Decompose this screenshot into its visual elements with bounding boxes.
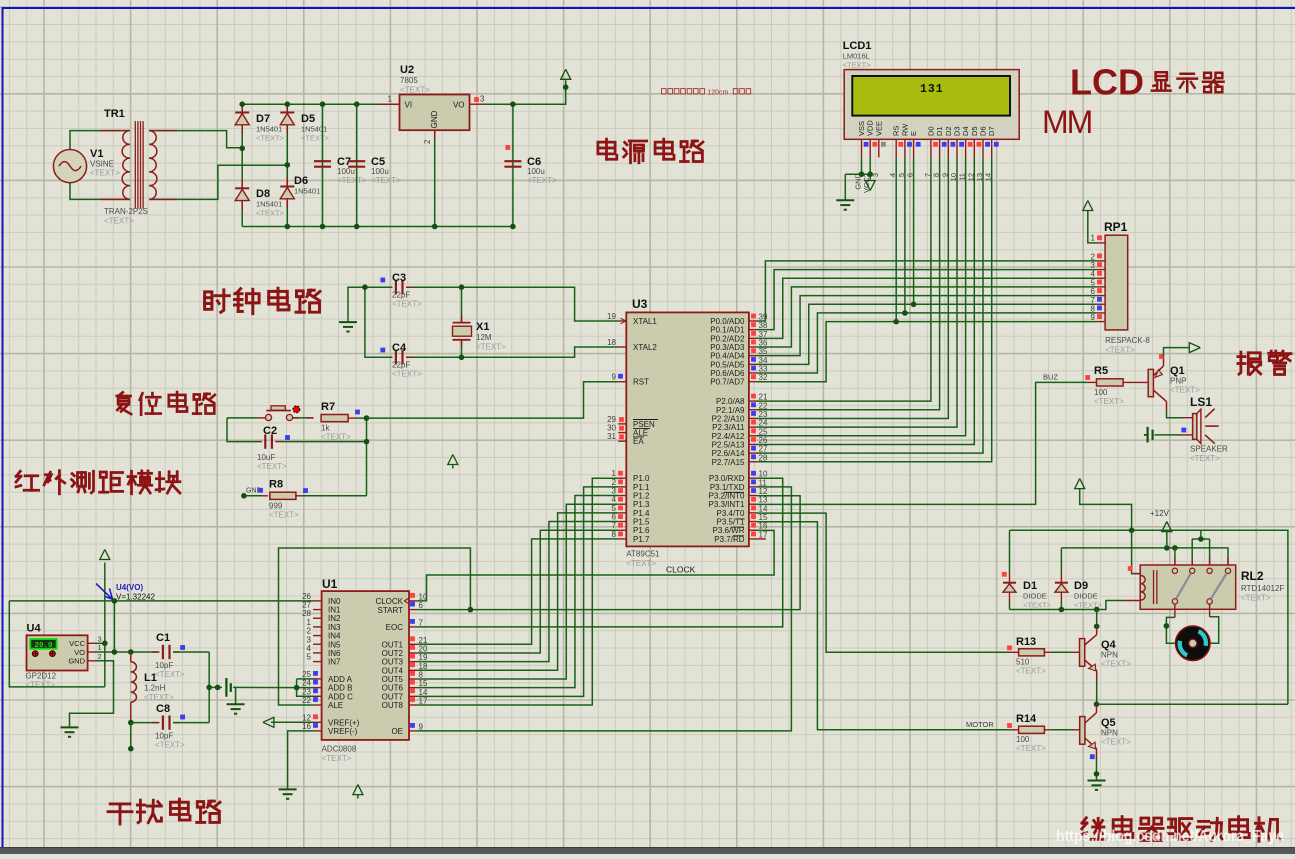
svg-text:VSINE: VSINE [90,160,114,169]
svg-text:<TEXT>: <TEXT> [155,741,185,750]
svg-text:<TEXT>: <TEXT> [269,511,299,520]
svg-text:100: 100 [1016,735,1030,744]
wire supply arrow to relay coil rail [1080,489,1132,531]
capacitor C1 [163,645,170,659]
svg-text:<TEXT>: <TEXT> [1105,346,1135,355]
diode D7 [235,113,249,125]
power terminal +V output [561,69,571,79]
wire Q1 emitter to power arrow [1164,348,1190,357]
wire diode bottom rail [1010,601,1125,610]
svg-text:16: 16 [759,522,768,531]
svg-text:18: 18 [607,338,616,347]
power terminal VREF+ [263,717,274,727]
svg-text:<TEXT>: <TEXT> [25,681,55,690]
svg-text:U1: U1 [322,577,338,591]
wire P1.1 to OUT7 [417,487,618,696]
svg-text:27: 27 [759,445,768,454]
svg-text:D9: D9 [1074,580,1088,592]
LCD pin stubs [862,139,992,157]
svg-text:D1: D1 [935,126,944,136]
junction C2 RST [364,439,370,445]
svg-text:8: 8 [419,670,424,679]
svg-text:RS: RS [892,126,901,136]
svg-text:39: 39 [759,313,768,322]
svg-text:3: 3 [98,635,102,644]
svg-text:7: 7 [1091,296,1096,305]
U4 pin stubs and numbers [88,642,96,644]
transistor Q1 PNP [1148,369,1153,396]
svg-text:TR1: TR1 [104,108,125,120]
relay switch blades [1176,573,1191,599]
U4 adjust knobs [32,651,38,657]
svg-text:9: 9 [419,722,424,731]
svg-text:P0.2/AD2: P0.2/AD2 [710,334,745,343]
svg-text:P2.3/A11: P2.3/A11 [712,423,745,432]
junction ADD B [294,685,300,691]
svg-text:23: 23 [302,687,311,696]
svg-text:2: 2 [423,139,432,144]
MCU U3 AT89C51 body [626,312,749,546]
svg-text:4: 4 [1091,270,1096,279]
svg-text:LCD: LCD [1070,62,1144,103]
U3 right pin stubs [749,321,766,539]
wire battery to ADD pins [233,686,297,688]
svg-text:P0.1/AD1: P0.1/AD1 [710,326,745,335]
svg-text:12M: 12M [476,333,492,342]
svg-text:R14: R14 [1016,713,1037,725]
junction node A [239,146,245,152]
svg-text:<TEXT>: <TEXT> [1241,594,1271,603]
junction Q5 emitter [1094,771,1100,777]
wire P0.2 to RP1 pin 4 [757,278,1097,338]
wire U1 EOC to U3 P3.0/RXD [417,478,782,627]
svg-text:38: 38 [759,321,768,330]
svg-text:120cm: 120cm [707,89,728,96]
wire C8 row [131,722,158,724]
svg-text:14: 14 [419,688,428,697]
svg-text:VSS: VSS [857,121,866,136]
svg-text:P3.0/RXD: P3.0/RXD [709,474,745,483]
svg-text:10uF: 10uF [257,453,275,462]
svg-text:2: 2 [98,652,102,661]
svg-text:131: 131 [920,83,944,96]
wire relay to motor right [1209,604,1211,617]
svg-text:P1.2: P1.2 [633,492,650,501]
svg-text:P3.1/TXD: P3.1/TXD [710,483,745,492]
svg-text:RST: RST [633,378,649,387]
svg-text:P2.2/A10: P2.2/A10 [712,414,745,423]
svg-text:C3: C3 [392,272,406,284]
source V1 VSINE [53,150,86,183]
ground LCD [836,200,854,209]
voltage probe U4(VO) [96,584,113,600]
ground battery [227,704,245,713]
U1 left pin stubs [313,601,322,731]
transformer TR1 [122,131,130,200]
terminal L1 bottom [128,746,134,752]
U4 display window [30,639,56,649]
svg-text:D5: D5 [301,113,315,125]
svg-text:9: 9 [1091,313,1096,322]
junction VO arrow [563,84,569,90]
wire LCD D0 to P2.0 [757,158,931,402]
junction RS row9 [893,319,899,325]
wire R7 to RST junction [348,417,356,419]
junction R7 RST [364,415,370,421]
U1 left pin names [328,597,360,736]
wire C1 row [131,651,158,653]
svg-text:P1.0: P1.0 [633,474,650,483]
wire battery to speaker bottom pin [1155,434,1182,436]
marker R14 [1007,723,1012,728]
marker R8 right [303,488,308,493]
resistor R8 body [270,492,296,499]
wire P1.5 to OUT3 [417,522,618,662]
wire U4 VCC to power arrow [96,642,105,644]
wire U4 GND to ground [70,661,114,728]
wire R14 to Q5 base [1044,729,1052,731]
junction Q4 emitter Q5 collector [1094,701,1100,707]
wire P0.5 to RP1 pin 7 [757,304,1097,364]
junction VO riser [112,649,118,655]
svg-text:EOC: EOC [386,623,404,632]
svg-text:P1.5: P1.5 [633,518,650,527]
wire P3.3 to BUZ [757,382,1088,504]
svg-text:P2.0/A8: P2.0/A8 [716,397,745,406]
svg-text:LCD1: LCD1 [843,40,872,52]
wire P0.7 to RP1 pin 9 [757,322,1097,382]
diode D1 [1003,583,1016,593]
svg-text:C4: C4 [392,342,407,354]
svg-text:1: 1 [388,95,393,104]
wire C3 XTAL1 rail [365,286,393,288]
svg-text:23: 23 [759,410,768,419]
svg-text:10: 10 [759,470,768,479]
reset button toggle dot [293,406,300,413]
svg-text:24: 24 [759,419,768,428]
svg-text:<TEXT>: <TEXT> [1101,660,1131,669]
svg-text:<TEXT>: <TEXT> [155,670,185,679]
capacitor C6 [504,161,521,167]
wire P1.6 to OUT2 [417,530,618,653]
svg-text:15: 15 [759,513,768,522]
wire Q5 emitter to ground [1096,758,1098,781]
svg-text:<TEXT>: <TEXT> [843,61,872,70]
power terminal +12V [1162,522,1172,532]
junction bottom rail C6 [510,224,516,230]
relay RL2 body [1140,565,1236,609]
XTAL1 clock input mark [621,318,627,323]
svg-text:P3.3/INT1: P3.3/INT1 [708,500,745,509]
wire P1.3 to OUT5 [417,504,618,679]
U3 right pin numbers and markers [751,313,768,540]
wire Q4 collector [1096,610,1098,629]
svg-text:6: 6 [1091,287,1096,296]
svg-text:C8: C8 [156,703,170,715]
svg-text:P3.6/WR: P3.6/WR [712,526,744,535]
svg-text:16: 16 [302,722,311,731]
U1 right pin names [375,597,403,736]
diode D6 [280,187,294,199]
wire reset button left [227,417,258,419]
battery cell BT [225,678,227,697]
svg-text:<TEXT>: <TEXT> [322,754,352,763]
reset button contacts [265,414,271,420]
wire U1 CLOCK to U3 P3.6/WR [417,530,774,601]
svg-text:D7: D7 [256,113,270,125]
svg-text:X1: X1 [476,321,489,333]
svg-text:<TEXT>: <TEXT> [104,217,134,226]
svg-text:IN0: IN0 [328,597,341,606]
svg-text:OUT3: OUT3 [382,658,404,667]
svg-text:19: 19 [607,312,616,321]
svg-text:<TEXT>: <TEXT> [1016,744,1046,753]
svg-text:1k: 1k [321,424,330,433]
label 复位电路 [117,392,131,414]
svg-text:14: 14 [759,504,768,513]
wire C4 XTAL2 rail [365,287,393,357]
svg-text:<TEXT>: <TEXT> [1094,397,1124,406]
svg-text:https://blog.csdn.net/Aurora_F: https://blog.csdn.net/Aurora_Faye [1056,828,1284,845]
svg-text:4: 4 [307,644,312,653]
svg-text:33: 33 [759,365,768,374]
svg-text:D6: D6 [979,126,988,136]
wire LCD D5 to P2.5 [757,158,974,445]
wire LCD VDD power [869,158,871,180]
marker coil top [1128,566,1133,571]
svg-text:27: 27 [302,601,311,610]
label 报警 [1238,352,1261,374]
svg-text:P0.5/AD5: P0.5/AD5 [710,360,745,369]
wire P1.2 to OUT6 [417,496,618,688]
svg-text:4: 4 [612,495,617,504]
svg-text:2: 2 [307,627,312,636]
junction C3 left [362,284,368,290]
pin 2 GND stub U2 [434,130,436,226]
wire contact rail y548 [1061,548,1228,565]
svg-text:<TEXT>: <TEXT> [626,559,656,568]
wire coil riser [1132,530,1141,573]
wire P0.1 to RP1 pin 3 [757,270,1097,330]
junction Q4 collector rail [1094,607,1100,613]
svg-text:P0.0/AD0: P0.0/AD0 [710,317,745,326]
svg-text:9: 9 [612,373,617,382]
svg-text:VREF(-): VREF(-) [328,727,358,736]
svg-text:IN6: IN6 [328,649,341,658]
RP1 pin stubs [1097,243,1105,322]
wire P1.4 to OUT4 [417,513,618,670]
svg-text:PSEN: PSEN [633,420,655,429]
svg-text:P0.7/AD7: P0.7/AD7 [710,378,745,387]
svg-text:1N5401: 1N5401 [256,200,282,209]
svg-text:U2: U2 [400,64,414,76]
svg-text:28: 28 [302,609,311,618]
svg-text:<TEXT>: <TEXT> [392,370,422,379]
svg-text:IN2: IN2 [328,614,341,623]
svg-text:26: 26 [759,436,768,445]
svg-text:<TEXT>: <TEXT> [301,134,330,143]
svg-text:GND: GND [68,657,85,666]
wire P0.6 to RP1 pin 8 [757,313,1097,373]
label 继电器驱动电机 [1082,818,1105,840]
svg-text:V1: V1 [90,148,103,160]
svg-text:<TEXT>: <TEXT> [1016,667,1046,676]
label 干扰电路 [108,804,132,824]
speaker LS1 [1193,414,1197,440]
svg-text:10pF: 10pF [155,661,173,670]
svg-text:1N5401: 1N5401 [301,125,327,134]
wire R8 to RST vertical [296,495,303,497]
junction tank mid [206,685,212,691]
svg-text:<TEXT>: <TEXT> [476,343,506,352]
wire LCD D3 to P2.3 [757,158,957,428]
wire C5 column [356,104,358,226]
U3 left pin markers [618,374,624,536]
wire +V rail y530 [1010,530,1288,704]
transistor Q4 NPN [1080,639,1085,667]
junction Q4 collector node [1094,624,1100,630]
motor icon [1176,626,1210,660]
LCD1 screen [852,76,1010,116]
svg-text:<TEXT>: <TEXT> [527,176,557,185]
svg-text:RTD14012F: RTD14012F [1241,584,1285,593]
resistor R14 body [1019,726,1045,733]
svg-text:TRAN-2P2S: TRAN-2P2S [104,207,148,216]
svg-text:10pF: 10pF [155,732,173,741]
wire P1.7 to OUT1 [417,539,618,644]
capacitor C7 [314,161,331,167]
svg-text:D1: D1 [1023,580,1037,592]
svg-text:RL2: RL2 [1241,569,1264,583]
wire node to right riser [1097,703,1288,705]
svg-text:35: 35 [759,347,768,356]
svg-text:IN3: IN3 [328,623,341,632]
wire VO rail to C6 and power arrow [482,80,566,104]
marker Q5 emitter [1090,754,1095,759]
U1 right pin stubs [409,601,417,731]
svg-text:NPN: NPN [1101,651,1118,660]
junction top rail D7 [239,101,245,107]
svg-text:D7: D7 [987,126,996,136]
svg-text:25: 25 [759,427,768,436]
svg-text:CLOCK: CLOCK [666,565,696,575]
marker C8 [180,715,185,720]
junction C8 L1 [128,720,134,726]
svg-text:100u: 100u [371,167,389,176]
junction D9 bottom [1059,607,1065,613]
junction ALE-START [468,607,474,613]
svg-text:OUT5: OUT5 [382,675,404,684]
wire left loop down [9,601,105,687]
junction RW row8 [902,310,908,316]
label 红外测距模块 [16,471,39,490]
svg-text:3: 3 [307,635,312,644]
svg-text:P0.4/AD4: P0.4/AD4 [710,352,745,361]
svg-text:20: 20 [419,644,428,653]
wire P3.4 to R13 [757,513,1010,652]
svg-text:100: 100 [1094,388,1108,397]
svg-text:EA: EA [633,437,644,446]
junction contact1 rail [1172,545,1178,551]
svg-text:P1.3: P1.3 [633,500,650,509]
junction C3 X1 [459,284,465,290]
capacitor C2 [265,434,272,448]
label 电源电路 [598,139,617,159]
wire TR1 secondary bottom to bridge node B [149,165,287,199]
svg-text:E: E [909,131,918,136]
svg-text:<TEXT>: <TEXT> [371,176,401,185]
svg-text:OE: OE [391,727,403,736]
wire D5 column [286,104,288,226]
svg-text:U4: U4 [27,623,42,635]
svg-text:36: 36 [759,339,768,348]
marker C3 [380,278,385,283]
svg-text:GP2D12: GP2D12 [25,672,56,681]
wire reset button to R7 [293,417,314,419]
svg-text:D8: D8 [256,188,270,200]
label 120cm note [662,89,667,94]
power terminal U4 VCC [100,550,110,560]
marker R5 left [1085,375,1090,380]
U3 left pin stubs [618,321,626,539]
RP1 pin numbers and markers [1091,234,1102,323]
svg-text:24: 24 [302,679,311,688]
svg-text:17: 17 [419,697,428,706]
svg-text:22: 22 [759,401,768,410]
diode D5 [280,113,294,125]
resistor R5 [1088,381,1097,383]
svg-text:R8: R8 [269,479,283,491]
svg-text:P3.4/T0: P3.4/T0 [716,509,745,518]
junction C4 X1 [459,355,465,361]
svg-text:NPN: NPN [1101,729,1118,738]
svg-text:P1.1: P1.1 [633,483,650,492]
svg-text:28: 28 [759,453,768,462]
diode D9 column [1060,548,1062,574]
label 时钟电路 [205,290,230,312]
svg-text:Q5: Q5 [1101,717,1116,729]
svg-text:ADD C: ADD C [328,692,353,701]
wire C2 row [227,418,259,442]
wire contact1 drop [1174,548,1176,565]
reset button actuator [266,410,291,412]
svg-text:XTAL2: XTAL2 [633,343,657,352]
sensor U4 GP2D12 body [27,635,88,670]
transistor Q5 NPN [1080,717,1085,745]
svg-text:START: START [378,606,404,615]
svg-text:P2.4/A12: P2.4/A12 [712,432,745,441]
relay contact circles bottom [1172,599,1177,604]
svg-text:RW: RW [900,123,909,136]
svg-text:22pF: 22pF [392,361,410,370]
svg-text:OUT2: OUT2 [382,649,404,658]
speaker battery cell [1144,434,1148,436]
svg-text:5: 5 [612,504,617,513]
diode D1 column [1009,530,1011,573]
ADC U1 ADC0808 body [322,591,409,740]
svg-text:PNP: PNP [1170,377,1186,386]
diode D8 [235,188,249,200]
capacitor C3 [396,280,403,294]
svg-text:25: 25 [302,670,311,679]
svg-text:Q4: Q4 [1101,639,1117,651]
svg-text:<TEXT>: <TEXT> [1101,738,1131,747]
junction motor left [1164,623,1170,629]
svg-text:6: 6 [612,513,617,522]
svg-text:1N5401: 1N5401 [294,187,320,196]
ground U4 [61,727,79,736]
svg-text:LM016L: LM016L [843,52,870,61]
